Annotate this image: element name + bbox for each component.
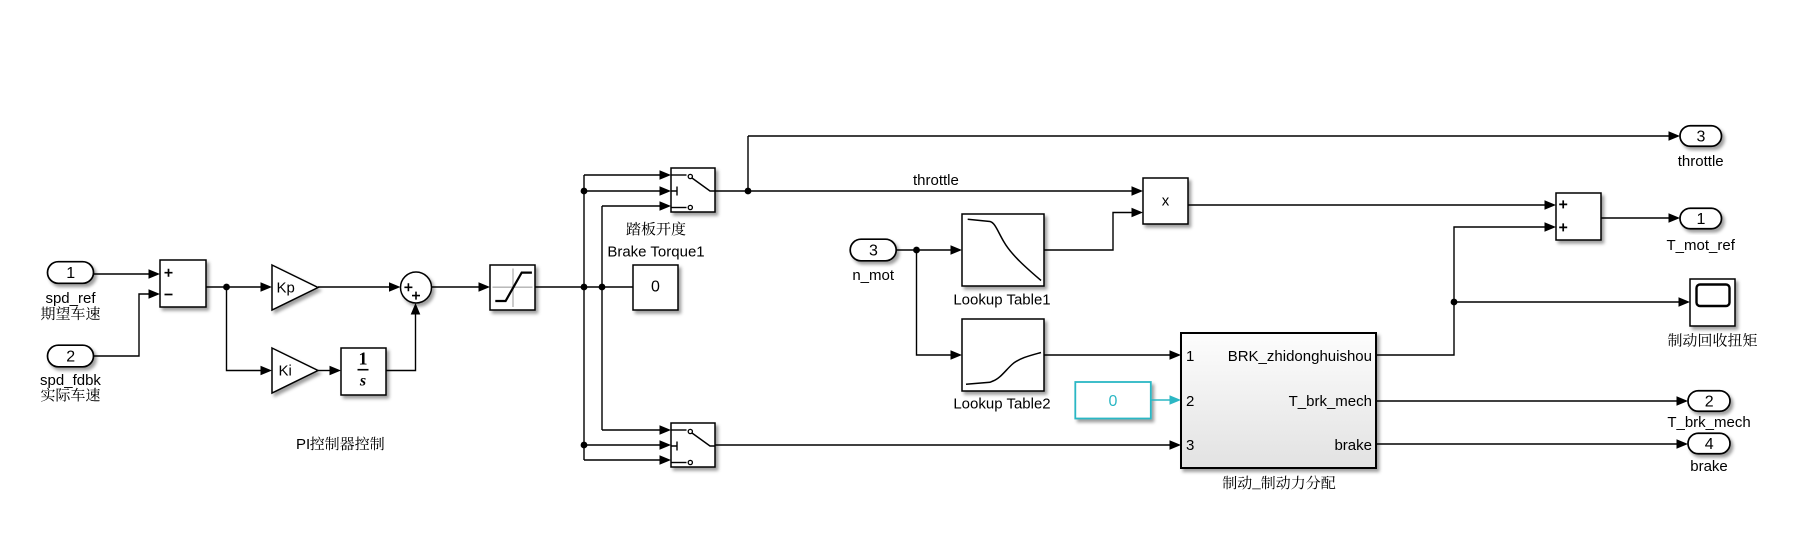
wire subsystem out1 to sum S3 — [1376, 227, 1546, 355]
lookup table LT1 — [962, 214, 1044, 286]
svg-text:1: 1 — [66, 265, 75, 282]
svg-text:0: 0 — [1109, 393, 1118, 410]
wire sum S1 to gain Kp — [206, 286, 262, 288]
svg-text:Brake Torque1: Brake Torque1 — [607, 244, 704, 261]
svg-text:brake: brake — [1690, 458, 1728, 475]
wire throttle to outport 3 — [748, 135, 1670, 137]
node saturation out A — [581, 284, 588, 291]
svg-text:0: 0 — [651, 278, 660, 295]
saturation — [490, 265, 535, 310]
wire lookup LT1 to product — [1044, 213, 1133, 251]
svg-text:spd_fdbk: spd_fdbk — [40, 372, 101, 389]
svg-text:brake: brake — [1334, 437, 1372, 454]
inport 3 n_mot — [850, 239, 896, 261]
outport 4 brake — [1688, 433, 1730, 454]
wire to scope — [1454, 301, 1680, 303]
wire saturation to display — [535, 286, 633, 288]
wire port2 to sum S1 — [93, 294, 150, 356]
label 踏板开度 — [627, 222, 686, 236]
wire branch to gain Ki — [227, 287, 262, 371]
sum S1 — [160, 260, 206, 307]
svg-text:throttle: throttle — [913, 172, 959, 189]
wire to switch SW2 input2 — [584, 444, 661, 446]
label 实际车速 — [41, 388, 100, 402]
outport 1 T_mot_ref — [1680, 208, 1722, 229]
constant 0 cyan — [1075, 382, 1151, 419]
outport 2 T_brk_mech — [1688, 391, 1730, 412]
label 期望车速 — [41, 306, 100, 320]
node bus584 switch2 in2 — [581, 442, 588, 449]
gain Ki — [272, 348, 318, 393]
svg-text:BRK_zhidonghuishou: BRK_zhidonghuishou — [1228, 348, 1372, 365]
outport 3 throttle — [1680, 126, 1722, 147]
sum S3 — [1556, 193, 1601, 240]
svg-text:1: 1 — [1186, 348, 1194, 365]
wire lookup LT2 to subsystem in1 — [1044, 354, 1170, 356]
wire to switch SW2 input3 — [584, 459, 661, 461]
svg-text:T_brk_mech: T_brk_mech — [1289, 393, 1372, 410]
wire vertical bus x602 — [601, 206, 603, 430]
wire gain Kp to sum S2 — [318, 286, 390, 288]
svg-text:2: 2 — [1186, 393, 1194, 410]
svg-text:PI: PI — [296, 436, 310, 453]
svg-text:s: s — [359, 373, 366, 390]
wire to switch SW1 input1 — [584, 174, 661, 176]
node scope branch — [1451, 299, 1458, 306]
node saturation out B — [599, 284, 606, 291]
svg-text:1: 1 — [359, 349, 368, 369]
node throttle branch — [745, 188, 752, 195]
svg-text:Lookup Table1: Lookup Table1 — [953, 292, 1050, 309]
subsystem 制动_制动力分配 — [1181, 333, 1376, 468]
wire to switch SW2 input1 — [602, 429, 661, 431]
switch SW2 — [671, 423, 715, 467]
sum S2 — [401, 272, 432, 303]
wire integrator to sum S2 — [386, 314, 416, 371]
gain Kp — [272, 265, 318, 310]
label 制动回收扭矩 — [1668, 333, 1757, 347]
inport 2 spd_fdbk — [48, 345, 94, 367]
wire n_mot to lookup LT1 — [896, 249, 952, 251]
wire subsystem out3 to outport 4 — [1376, 443, 1678, 445]
node n_mot branch — [913, 247, 920, 254]
wire vertical bus x584 — [583, 175, 585, 460]
svg-text:1: 1 — [1696, 211, 1705, 228]
scope 制动回收扭矩 — [1690, 279, 1735, 326]
svg-text:Ki: Ki — [279, 363, 292, 380]
lookup table LT2 — [962, 319, 1044, 391]
switch SW1 — [671, 168, 715, 212]
svg-text:throttle: throttle — [1678, 153, 1724, 170]
integrator 1/s — [341, 348, 386, 395]
wire n_mot to lookup LT2 — [917, 250, 952, 355]
svg-text:Lookup Table2: Lookup Table2 — [953, 396, 1050, 413]
wire product to sum S3 — [1188, 204, 1546, 206]
label 制动_制动力分配 — [1223, 475, 1336, 489]
svg-text:x: x — [1162, 193, 1170, 210]
wire cyan to subsystem in2 — [1151, 399, 1170, 401]
wire gain Ki to integrator — [318, 370, 331, 372]
svg-text:spd_ref: spd_ref — [45, 290, 96, 307]
wire switch SW2 to subsystem in3 — [715, 444, 1170, 446]
svg-text:T_brk_mech: T_brk_mech — [1667, 414, 1750, 431]
wire throttle up — [747, 136, 749, 191]
svg-text:n_mot: n_mot — [852, 267, 895, 284]
wire sum S3 to outport 1 — [1601, 217, 1670, 219]
wire to switch SW1 input2 — [584, 190, 661, 192]
svg-text:Kp: Kp — [277, 280, 295, 297]
wire to switch SW1 input3 — [602, 205, 661, 207]
wire sum S2 to saturation — [432, 286, 480, 288]
svg-text:2: 2 — [66, 349, 75, 366]
svg-text:T_mot_ref: T_mot_ref — [1667, 237, 1736, 254]
node after sum S1 — [223, 284, 230, 291]
wire switch SW1 to product — [715, 190, 1133, 192]
svg-text:3: 3 — [1696, 129, 1705, 146]
svg-text:2: 2 — [1705, 394, 1714, 411]
svg-text:3: 3 — [869, 243, 878, 260]
svg-text:4: 4 — [1705, 436, 1714, 453]
wire subsystem out2 to outport 2 — [1376, 400, 1678, 402]
display block 0 — [633, 265, 678, 310]
node bus584 switch1 in2 — [581, 188, 588, 195]
svg-text:3: 3 — [1186, 437, 1194, 454]
product block x — [1143, 178, 1188, 224]
wire port1 to sum S1 — [93, 273, 150, 275]
inport 1 spd_ref — [48, 262, 94, 284]
